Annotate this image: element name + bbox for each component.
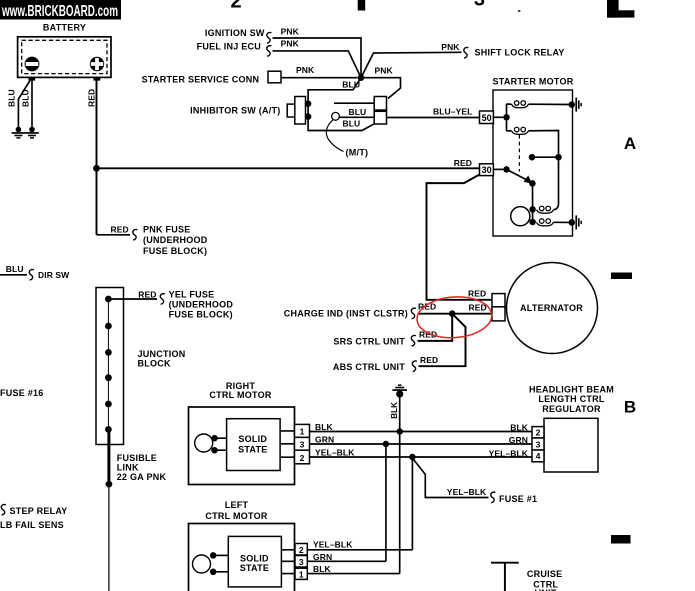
wire battery neg 1 <box>18 81 30 128</box>
svg-text:BLK: BLK <box>510 422 529 432</box>
wire BLK left motor <box>307 573 399 575</box>
svg-text:3: 3 <box>300 440 305 450</box>
svg-text:INHIBITOR SW (A/T): INHIBITOR SW (A/T) <box>190 106 280 116</box>
wire arm to motor <box>532 183 534 209</box>
svg-text:3: 3 <box>474 0 485 11</box>
connector squiggle charge ind <box>411 308 416 319</box>
wire GRN right motor <box>310 443 533 445</box>
ground starter top <box>569 98 582 112</box>
connector squiggle yel fuse <box>160 294 165 305</box>
page mark bar <box>358 0 366 11</box>
svg-text:RED: RED <box>420 355 438 365</box>
node fusible link end <box>106 481 113 488</box>
node motor top <box>529 206 536 213</box>
wire coil2 to contact rail <box>507 131 559 210</box>
svg-text:PNK: PNK <box>441 42 460 52</box>
wire to pnk fuse <box>97 234 131 236</box>
svg-text:BATTERY: BATTERY <box>43 23 86 33</box>
node arm end <box>529 180 536 187</box>
svg-text:BLU: BLU <box>21 89 31 107</box>
wire to fuse 1 <box>412 458 488 498</box>
annotation red ellipse <box>416 294 493 340</box>
contact pair <box>529 154 562 161</box>
svg-text:YEL–BLK: YEL–BLK <box>315 448 355 458</box>
svg-text:BLU: BLU <box>343 118 361 128</box>
wire coil1 to ground <box>507 103 570 106</box>
svg-text:STARTER SERVICE CONN: STARTER SERVICE CONN <box>142 75 260 85</box>
wire GRN vertical <box>385 444 387 561</box>
label CRUISE CTRL UNIT <box>527 569 563 591</box>
wire cruise ctrl tee <box>491 563 519 591</box>
left ctrl motor box <box>189 524 295 591</box>
wire fuel inj ecu <box>273 51 362 78</box>
wire RED main <box>97 167 480 169</box>
wire battery neg 2 <box>31 81 33 128</box>
wire abs ctrl <box>419 314 466 367</box>
svg-text:RED: RED <box>468 289 486 299</box>
terminal 1 right motor <box>295 424 310 437</box>
svg-text:STATE: STATE <box>240 563 269 573</box>
terminal 2 regulator <box>532 427 544 438</box>
svg-text:BLK: BLK <box>313 564 332 574</box>
svg-text:22 GA PNK: 22 GA PNK <box>117 472 167 482</box>
wire motor to solid state <box>213 554 228 556</box>
wire junction to inhibitor connector top <box>361 78 401 99</box>
terminal 1 left motor <box>295 568 307 579</box>
coil relay 1 <box>512 101 529 108</box>
svg-text:(UNDERHOOD: (UNDERHOOD <box>143 235 208 245</box>
wire to shift lock relay <box>361 52 462 77</box>
svg-text:www.BRICKBOARD.com: www.BRICKBOARD.com <box>1 3 118 20</box>
svg-text:STARTER MOTOR: STARTER MOTOR <box>493 77 574 87</box>
node 30 <box>503 166 510 173</box>
coil motor top <box>537 206 554 213</box>
wire BLK right motor <box>310 431 533 433</box>
svg-text:30: 30 <box>482 165 492 175</box>
wire solid state to terminals <box>281 550 295 574</box>
starter motor box <box>493 90 573 236</box>
connector squiggle step relay <box>1 504 6 515</box>
wire BLU-YEL <box>387 117 480 119</box>
junction block <box>96 288 124 445</box>
node red junction <box>449 310 456 317</box>
wire motor to solid state <box>215 449 227 451</box>
svg-text:YEL–BLK: YEL–BLK <box>447 487 487 497</box>
svg-text:FUSE BLOCK): FUSE BLOCK) <box>143 246 207 256</box>
svg-text:CTRL MOTOR: CTRL MOTOR <box>209 390 271 400</box>
svg-text:FUSE BLOCK): FUSE BLOCK) <box>169 309 233 319</box>
ground starter bottom <box>569 215 582 229</box>
svg-text:RED: RED <box>111 225 129 235</box>
node BLK junction <box>397 428 404 435</box>
connector squiggle abs <box>412 361 417 372</box>
wire motor nodes <box>532 209 534 222</box>
node inhibitor pin 1 <box>305 100 312 107</box>
speck <box>518 10 520 12</box>
terminal 2 left motor <box>295 544 307 556</box>
svg-text:CTRL MOTOR: CTRL MOTOR <box>205 511 267 521</box>
wire motor to solid state <box>213 571 228 573</box>
connector C1 cells <box>374 97 386 125</box>
svg-text:RED: RED <box>419 330 437 340</box>
wire motor to solid state <box>215 437 227 439</box>
svg-text:2: 2 <box>536 428 541 438</box>
switch arm <box>507 169 533 183</box>
svg-text:YEL–BLK: YEL–BLK <box>489 448 529 458</box>
connector alternator cells <box>492 294 505 321</box>
regulator box <box>544 418 598 472</box>
label YEL FUSE block <box>169 290 234 320</box>
terminal 3 left motor <box>295 556 307 568</box>
connector inhibitor sw <box>287 97 305 125</box>
node motor right top <box>211 435 218 442</box>
svg-text:PNK: PNK <box>281 38 300 48</box>
label JUNCTION BLOCK <box>138 349 186 368</box>
label RIGHT CTRL MOTOR <box>209 381 271 400</box>
wire solid state to terminals <box>280 431 294 457</box>
wire charge ind <box>418 313 493 315</box>
svg-text:ALTERNATOR: ALTERNATOR <box>520 303 583 313</box>
node motor left bottom <box>210 569 217 576</box>
svg-text:A: A <box>624 134 636 153</box>
svg-text:STEP RELAY: STEP RELAY <box>10 506 68 516</box>
connector squiggle shift lock <box>464 47 469 58</box>
svg-text:BLU: BLU <box>7 89 17 107</box>
svg-text:CRUISE: CRUISE <box>527 569 563 579</box>
svg-text:BLU: BLU <box>349 107 367 117</box>
wire GRN left motor <box>307 560 386 562</box>
svg-text:LINK: LINK <box>117 462 139 472</box>
svg-text:PNK: PNK <box>375 65 394 75</box>
svg-text:IGNITION SW: IGNITION SW <box>205 28 265 38</box>
svg-text:SOLID: SOLID <box>240 553 269 563</box>
label SOLID STATE <box>238 434 267 455</box>
connector squiggle dir sw <box>29 269 34 280</box>
battery B1 <box>18 37 111 81</box>
svg-text:2: 2 <box>299 545 304 555</box>
right ctrl motor box <box>189 407 295 485</box>
svg-text:BLK: BLK <box>315 422 334 432</box>
svg-text:RED: RED <box>138 289 156 299</box>
svg-text:SOLID: SOLID <box>238 434 267 444</box>
svg-text:BLOCK: BLOCK <box>138 358 171 368</box>
wire motor coil bottom to ground <box>554 221 570 223</box>
label SOLID STATE <box>240 553 269 573</box>
svg-text:B: B <box>624 398 636 417</box>
svg-text:FUEL INJ ECU: FUEL INJ ECU <box>197 41 261 51</box>
leader curve M/T <box>326 120 343 152</box>
wire srs ctrl <box>418 314 453 341</box>
node battery junction <box>93 165 100 172</box>
svg-text:GRN: GRN <box>509 435 528 445</box>
wire starter service conn <box>281 77 358 79</box>
svg-text:LB FAIL SENS: LB FAIL SENS <box>0 520 64 530</box>
node motor left top <box>210 552 217 559</box>
svg-text:2: 2 <box>230 0 241 13</box>
wire term50 stub <box>493 116 506 118</box>
svg-text:PNK: PNK <box>281 26 300 36</box>
connector squiggle ignition <box>267 32 272 43</box>
wire inner blu 1 <box>334 102 374 104</box>
svg-text:GRN: GRN <box>315 435 334 445</box>
svg-text:CHARGE IND (INST CLSTR): CHARGE IND (INST CLSTR) <box>284 309 408 319</box>
svg-text:BLU–YEL: BLU–YEL <box>433 107 472 117</box>
svg-text:YEL–BLK: YEL–BLK <box>313 539 353 549</box>
svg-text:BLU: BLU <box>6 264 24 274</box>
svg-text:1: 1 <box>299 569 304 579</box>
coil motor bottom <box>537 219 554 226</box>
svg-text:LENGTH CTRL: LENGTH CTRL <box>538 394 604 404</box>
terminal 50 <box>480 111 494 124</box>
wire dir sw <box>0 274 27 276</box>
terminal 30 <box>480 164 494 176</box>
motor right <box>195 434 213 452</box>
node PNK junction <box>358 74 365 81</box>
label FUSIBLE LINK 22 GA PNK <box>117 453 167 482</box>
svg-text:FUSE #16: FUSE #16 <box>0 388 44 398</box>
svg-text:50: 50 <box>482 113 492 123</box>
wire terminal30 down to alternator <box>427 175 493 300</box>
label PNK FUSE block <box>143 225 208 256</box>
alternator <box>507 263 598 354</box>
svg-text:LEFT: LEFT <box>225 500 249 510</box>
node motor bottom <box>529 219 536 226</box>
svg-text:(UNDERHOOD: (UNDERHOOD <box>169 300 234 310</box>
svg-text:BLK: BLK <box>390 402 399 419</box>
svg-text:DIR SW: DIR SW <box>38 270 70 280</box>
wire YEL-BLK vertical <box>411 457 413 550</box>
terminal 2 right motor <box>295 450 310 464</box>
label LEFT CTRL MOTOR <box>205 500 267 521</box>
motor M <box>511 207 530 226</box>
motor left <box>193 555 211 573</box>
node motor right bottom <box>211 447 218 454</box>
svg-text:(M/T): (M/T) <box>346 148 369 158</box>
wire yel fuse <box>112 298 157 300</box>
svg-text:FUSE #1: FUSE #1 <box>499 494 537 504</box>
terminal 3 regulator <box>532 438 544 450</box>
ground BLK <box>392 384 407 397</box>
svg-text:STATE: STATE <box>238 445 267 455</box>
svg-text:1: 1 <box>300 427 305 437</box>
wire YEL-BLK left motor <box>307 549 412 551</box>
page dash mark <box>611 535 631 544</box>
wire battery pos <box>96 81 98 235</box>
dashed plunger link <box>518 135 520 172</box>
solid state right box <box>227 419 281 471</box>
svg-text:SHIFT LOCK RELAY: SHIFT LOCK RELAY <box>475 47 565 57</box>
connector squiggle pnk fuse <box>133 229 138 240</box>
wire fusible link down <box>108 484 110 591</box>
connector squiggle fuse 1 <box>491 492 496 503</box>
connector squiggle fuel inj <box>267 46 272 57</box>
node inhibitor pin 2 <box>305 113 312 120</box>
label HEADLIGHT BEAM LENGTH CTRL REGULATOR <box>529 385 614 414</box>
svg-text:GRN: GRN <box>313 552 332 562</box>
terminal 3 right motor <box>295 437 310 450</box>
fusible link F1 <box>107 429 110 484</box>
svg-text:PNK: PNK <box>296 65 315 75</box>
coil relay 2 <box>512 127 529 134</box>
svg-text:PNK FUSE: PNK FUSE <box>143 225 191 235</box>
wire term30 stub <box>493 168 506 170</box>
svg-text:SRS CTRL UNIT: SRS CTRL UNIT <box>333 337 405 347</box>
svg-text:RED: RED <box>87 89 97 107</box>
ground G1 <box>12 127 26 139</box>
page dash mark <box>611 273 632 280</box>
svg-text:HEADLIGHT BEAM: HEADLIGHT BEAM <box>529 385 614 395</box>
svg-text:RED: RED <box>454 158 472 168</box>
svg-text:3: 3 <box>299 557 304 567</box>
connector circle M/T <box>332 112 340 120</box>
solid state left box <box>228 536 281 587</box>
wire ignition sw <box>273 38 362 75</box>
wire node50 vertical <box>506 104 508 131</box>
node 50 <box>503 114 510 121</box>
node GRN junction <box>383 441 390 448</box>
svg-text:YEL FUSE: YEL FUSE <box>169 290 215 300</box>
svg-text:2: 2 <box>300 453 305 463</box>
page letter E fragment <box>607 0 634 18</box>
svg-text:4: 4 <box>536 451 541 461</box>
wire inner blu 2 <box>339 116 374 118</box>
brickboard.com logo <box>0 0 121 20</box>
connector squiggle srs <box>411 335 416 346</box>
terminal 4 regulator <box>532 450 544 462</box>
svg-text:ABS CTRL UNIT: ABS CTRL UNIT <box>333 362 405 372</box>
svg-text:REGULATOR: REGULATOR <box>542 404 601 414</box>
connector box starter service <box>268 71 281 83</box>
svg-text:3: 3 <box>536 439 541 449</box>
node YEL-BLK junction <box>409 454 416 461</box>
wire junction to inhibitor sw loop <box>308 78 374 131</box>
wire YEL-BLK right motor <box>310 456 533 458</box>
ground G2 <box>25 127 39 139</box>
wire BLK vertical <box>399 397 401 574</box>
